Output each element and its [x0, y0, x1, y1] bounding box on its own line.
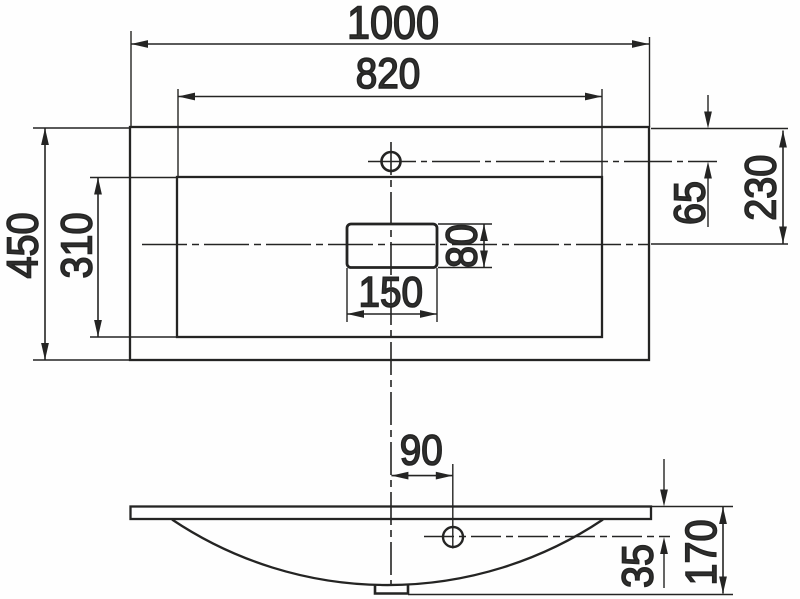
overflow/drain box 150x80 [347, 224, 437, 268]
label 65 [665, 181, 714, 225]
faucet hole centerline [368, 161, 717, 163]
basin bowl curve (front view) [172, 520, 603, 586]
svg-text:90: 90 [400, 426, 443, 474]
vertical centerline [390, 142, 392, 584]
label 170 [676, 519, 725, 585]
dimension 170 [719, 507, 727, 594]
horizontal basin centerline [142, 243, 788, 246]
dimension 90 [391, 472, 452, 480]
bottom extension line [408, 594, 733, 596]
svg-text:450: 450 [0, 212, 47, 278]
faucet hole centerline (front view) [424, 536, 670, 538]
svg-text:1000: 1000 [347, 0, 439, 49]
dimension 820 [178, 89, 602, 176]
dimension 150 [347, 268, 437, 322]
svg-text:65: 65 [665, 181, 714, 225]
countertop slab (front view) [131, 507, 652, 520]
dimension 230 [779, 131, 787, 244]
label 35 [613, 544, 662, 588]
faucet hole vertical leader [452, 464, 454, 549]
svg-text:310: 310 [52, 212, 101, 278]
label 150 [359, 268, 424, 316]
svg-text:80: 80 [437, 224, 486, 268]
dimension 1000 [131, 31, 650, 127]
dimension 310 [90, 178, 176, 338]
dimension 450 [33, 128, 129, 360]
svg-text:35: 35 [613, 544, 662, 588]
label 820 [356, 49, 421, 97]
slab top extension line [652, 506, 733, 508]
svg-text:230: 230 [736, 155, 785, 221]
label 450 [0, 212, 47, 278]
svg-text:820: 820 [356, 49, 421, 97]
dimension 80 [438, 224, 492, 268]
label 310 [52, 212, 101, 278]
label 90 [400, 426, 443, 474]
svg-text:150: 150 [359, 268, 424, 316]
faucet hole (front view) [443, 527, 463, 547]
label 230 [736, 155, 785, 221]
label 80 [437, 224, 486, 268]
drain stub [375, 586, 408, 594]
basin inner rim rectangle [177, 177, 602, 337]
svg-text:170: 170 [676, 519, 725, 585]
dimension 65 [704, 95, 712, 227]
top edge extension line right [651, 128, 788, 130]
countertop outer rectangle (top view) [130, 127, 649, 360]
label 1000 [347, 0, 439, 49]
dimension 35 [660, 459, 668, 588]
faucet hole (top view) [382, 152, 401, 171]
